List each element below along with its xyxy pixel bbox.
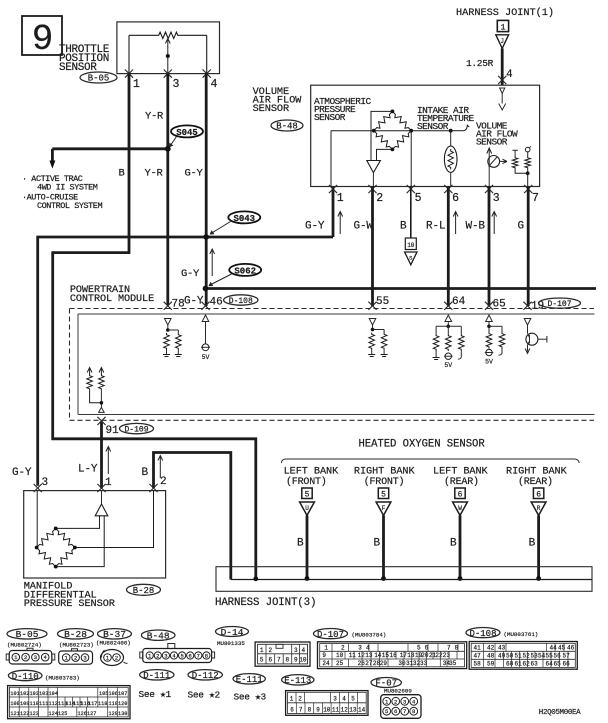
PCM pin64 resistor network with 5V xyxy=(433,322,465,370)
svg-text:2: 2 xyxy=(115,655,118,662)
svg-text:B: B xyxy=(297,538,304,550)
svg-text:B: B xyxy=(142,467,149,479)
svg-text:(FRONT): (FRONT) xyxy=(364,476,405,488)
svg-text:7: 7 xyxy=(532,192,539,205)
svg-text:3: 3 xyxy=(493,192,500,205)
PCM pin 19 xyxy=(523,301,544,313)
svg-text:9: 9 xyxy=(32,19,54,60)
PCM pin91 internal resistors xyxy=(87,368,104,413)
svg-text:1: 1 xyxy=(501,23,506,32)
svg-text:9: 9 xyxy=(316,707,320,714)
VAF pin 5 xyxy=(407,185,422,205)
MDP amplifier triangle xyxy=(95,491,108,516)
svg-text:2: 2 xyxy=(160,476,167,488)
svg-text:118: 118 xyxy=(98,701,107,707)
svg-text:6: 6 xyxy=(189,653,192,660)
TPS pin 4 xyxy=(203,70,218,92)
svg-text:B: B xyxy=(400,221,407,233)
svg-text:See ★1: See ★1 xyxy=(139,689,172,700)
PCM pin55 pull resistors xyxy=(368,325,387,357)
svg-text:G-Y: G-Y xyxy=(185,168,204,180)
svg-text:20: 20 xyxy=(421,652,429,659)
svg-text:43: 43 xyxy=(498,644,506,651)
svg-text:106: 106 xyxy=(109,691,118,697)
heated oxygen sensor LEFT BANK (REAR) xyxy=(433,467,489,581)
node S062 junction xyxy=(203,286,209,292)
svg-text:HARNESS JOINT(1): HARNESS JOINT(1) xyxy=(456,7,554,19)
APS bridge resistor top-right xyxy=(392,111,411,130)
svg-text:B-48: B-48 xyxy=(276,122,298,132)
svg-text:59: 59 xyxy=(487,660,495,667)
svg-text:18: 18 xyxy=(407,652,415,659)
MDP pin 1 xyxy=(97,477,112,492)
PCM pin19 transistor Q xyxy=(525,325,547,353)
svg-text:4: 4 xyxy=(366,644,370,651)
TPS pin 3 xyxy=(164,70,180,92)
svg-text:1: 1 xyxy=(260,647,264,654)
svg-text:5: 5 xyxy=(381,490,386,499)
svg-text:9: 9 xyxy=(294,656,298,663)
svg-text:117: 117 xyxy=(88,701,97,707)
svg-text:14: 14 xyxy=(358,707,366,714)
svg-text:G-Y: G-Y xyxy=(12,467,32,479)
svg-text:D-14: D-14 xyxy=(221,627,244,638)
svg-text:2: 2 xyxy=(268,647,272,654)
HOS brace xyxy=(281,459,579,463)
MDP bridge nodes xyxy=(35,527,77,569)
svg-text:L-Y: L-Y xyxy=(78,464,98,476)
heated oxygen sensor RIGHT BANK (REAR) xyxy=(506,467,568,581)
svg-text:(FRONT): (FRONT) xyxy=(286,476,327,488)
svg-text:3: 3 xyxy=(173,78,180,91)
PCM inner solid box xyxy=(78,314,595,415)
svg-text:6: 6 xyxy=(458,490,463,499)
svg-text:RIGHT BANK: RIGHT BANK xyxy=(354,467,416,478)
svg-text:66: 66 xyxy=(563,660,571,667)
node B wire on bus xyxy=(253,576,258,581)
svg-text:G-W: G-W xyxy=(354,221,374,233)
connector label D-111 xyxy=(139,670,175,700)
svg-text:65: 65 xyxy=(554,660,562,667)
svg-text:102: 102 xyxy=(20,691,29,697)
svg-text:7: 7 xyxy=(197,653,200,660)
label active trac / auto-cruise systems xyxy=(22,174,102,211)
svg-text:62: 62 xyxy=(523,660,531,667)
svg-text:G-Y: G-Y xyxy=(181,268,200,280)
svg-text:35: 35 xyxy=(449,660,457,667)
VAF pin 4 xyxy=(498,69,513,84)
svg-text:112: 112 xyxy=(49,701,58,707)
svg-text:6: 6 xyxy=(268,656,272,663)
MDP bridge resistor top-left xyxy=(37,528,56,547)
arrow up R-L xyxy=(453,212,458,235)
PCM pin 78 xyxy=(164,299,185,311)
svg-text:10: 10 xyxy=(336,652,344,659)
svg-text:3: 3 xyxy=(358,644,362,651)
wire 1.25R from harness joint 1 to VAF pin 4 xyxy=(501,48,504,85)
svg-text:12: 12 xyxy=(358,652,366,659)
svg-text:58: 58 xyxy=(474,660,482,667)
svg-text:5V: 5V xyxy=(444,362,452,369)
connector E-113 pinout table xyxy=(282,675,368,716)
MDP amp to bridge top wiring xyxy=(56,516,104,567)
svg-text:61: 61 xyxy=(515,660,523,667)
svg-text:44: 44 xyxy=(550,644,558,651)
svg-text:105: 105 xyxy=(99,691,108,697)
svg-text:3: 3 xyxy=(294,647,298,654)
svg-text:D-107: D-107 xyxy=(317,630,344,640)
PCM pin46 internal 5V source xyxy=(201,315,210,361)
arrow up G-Y wire xyxy=(210,249,215,276)
splice S062 xyxy=(208,264,261,286)
PCM pin78 internal entry mark xyxy=(165,319,172,326)
svg-text:2: 2 xyxy=(298,696,302,703)
svg-text:4: 4 xyxy=(506,69,513,81)
svg-text:11: 11 xyxy=(349,652,357,659)
connector label D-108 top xyxy=(224,295,258,305)
svg-text:55: 55 xyxy=(546,652,554,659)
IAT junction node xyxy=(449,129,453,133)
svg-text:R-L: R-L xyxy=(426,221,445,233)
svg-text:7: 7 xyxy=(299,707,303,714)
svg-text:Y-R: Y-R xyxy=(145,168,164,180)
PCM pin 55 xyxy=(368,296,389,310)
TPS pin 1 xyxy=(125,70,140,92)
svg-text:10: 10 xyxy=(323,707,331,714)
svg-text:2: 2 xyxy=(394,698,397,705)
APS top node branch to output arrow xyxy=(371,111,392,160)
svg-text:D-108: D-108 xyxy=(229,297,253,306)
APS bridge resistor top-left xyxy=(374,111,393,130)
APS output arrow symbol xyxy=(367,161,381,187)
svg-text:25: 25 xyxy=(336,660,344,667)
svg-text:6: 6 xyxy=(394,708,397,715)
svg-text:126: 126 xyxy=(78,711,87,717)
svg-text:MU801335: MU801335 xyxy=(217,640,245,647)
svg-text:6: 6 xyxy=(290,707,294,714)
svg-text:D-108: D-108 xyxy=(469,629,496,639)
page number box 9 xyxy=(22,16,62,60)
connector label D-107 top xyxy=(539,298,581,308)
svg-text:54: 54 xyxy=(538,652,546,659)
svg-text:14: 14 xyxy=(374,652,382,659)
PCM pin55 internal entry mark xyxy=(369,319,376,326)
svg-text:W-B: W-B xyxy=(466,221,486,233)
APS bridge resistor bottom-right xyxy=(392,131,411,150)
PCM pin19 internal entry mark xyxy=(524,319,531,326)
svg-text:(MU802724): (MU802724) xyxy=(7,642,42,649)
svg-text:121: 121 xyxy=(10,711,19,717)
svg-text:S043: S043 xyxy=(233,214,255,224)
powertrain control module label xyxy=(70,285,154,305)
connector D-108 pinout table xyxy=(466,628,577,670)
svg-text:D-111: D-111 xyxy=(143,671,170,681)
svg-text:5: 5 xyxy=(351,696,355,703)
svg-text:E-113: E-113 xyxy=(284,676,311,686)
svg-text:D-112: D-112 xyxy=(192,671,219,681)
svg-text:Y-R: Y-R xyxy=(145,111,164,123)
splice S045 xyxy=(169,125,203,147)
svg-text:9: 9 xyxy=(322,652,326,659)
connector F-07 pinout xyxy=(371,678,421,719)
svg-text:7: 7 xyxy=(447,644,451,651)
svg-text:55: 55 xyxy=(376,296,389,308)
wire L-Y PCM pin91 to MDP pin1 xyxy=(100,422,103,488)
svg-text:4: 4 xyxy=(342,696,346,703)
svg-text:120: 120 xyxy=(118,701,127,707)
wire B from TPS pin1 staircase to harness joint 3 xyxy=(53,74,256,579)
svg-text:5: 5 xyxy=(180,653,183,660)
svg-text:130: 130 xyxy=(118,711,127,717)
wire B VAF pin5 to ground 10 xyxy=(405,187,417,265)
svg-text:(MU803761): (MU803761) xyxy=(504,631,539,638)
PCM pin64 internal entry mark xyxy=(445,315,452,322)
svg-text:R: R xyxy=(537,505,541,512)
svg-text:B-48: B-48 xyxy=(147,631,170,642)
PCM pin 64 xyxy=(444,296,465,310)
svg-text:LEFT BANK: LEFT BANK xyxy=(284,467,340,478)
svg-text:B-28: B-28 xyxy=(64,629,87,640)
connector label B-28 xyxy=(127,584,161,595)
svg-text:G: G xyxy=(518,221,525,233)
svg-text:1: 1 xyxy=(133,78,140,91)
splice S043 xyxy=(210,211,261,234)
svg-text:1: 1 xyxy=(337,192,344,205)
svg-text:2: 2 xyxy=(376,192,383,205)
svg-text:101: 101 xyxy=(10,691,19,697)
MDP pin3 riser to bridge left xyxy=(36,491,38,548)
svg-text:F: F xyxy=(382,505,386,512)
svg-text:5: 5 xyxy=(305,490,310,499)
svg-text:PRESSURE SENSOR: PRESSURE SENSOR xyxy=(24,598,115,610)
svg-text:3: 3 xyxy=(333,696,337,703)
svg-text:78: 78 xyxy=(172,299,185,311)
svg-text:109: 109 xyxy=(20,701,29,707)
svg-text:64: 64 xyxy=(546,660,554,667)
MDP pin 3 xyxy=(34,477,49,492)
svg-text:SENSOR: SENSOR xyxy=(476,137,508,148)
svg-text:B-05: B-05 xyxy=(16,629,39,640)
svg-text:7: 7 xyxy=(277,656,281,663)
svg-text:129: 129 xyxy=(109,711,118,717)
svg-text:4WD II SYSTEM: 4WD II SYSTEM xyxy=(37,183,98,193)
svg-text:B: B xyxy=(529,538,536,550)
svg-text:119: 119 xyxy=(109,701,118,707)
svg-text:S062: S062 xyxy=(234,266,256,276)
PCM pin 91 xyxy=(97,417,119,437)
svg-text:CONTROL SYSTEM: CONTROL SYSTEM xyxy=(37,201,102,211)
svg-text:15: 15 xyxy=(382,652,390,659)
svg-text:See ★3: See ★3 xyxy=(234,692,267,703)
PCM dashed box xyxy=(70,309,595,421)
svg-text:108: 108 xyxy=(10,701,19,707)
manifold differential pressure sensor label xyxy=(24,581,115,611)
svg-text:8: 8 xyxy=(308,707,312,714)
svg-text:45: 45 xyxy=(558,644,566,651)
svg-text:104: 104 xyxy=(49,691,58,697)
svg-text:17: 17 xyxy=(400,652,408,659)
svg-text:63: 63 xyxy=(531,660,539,667)
wire G-W VAF pin2 to PCM pin 55 xyxy=(371,187,374,307)
svg-text:30: 30 xyxy=(398,660,406,667)
node S045 junction xyxy=(165,146,171,152)
svg-text:D-107: D-107 xyxy=(547,300,571,309)
APS bottom node branch xyxy=(377,149,393,160)
harness joint 3 box xyxy=(216,567,592,592)
wire G VAF pin7 to PCM pin 19 xyxy=(527,187,530,307)
PCM pin65 resistor network with 5V xyxy=(485,322,505,366)
svg-text:1: 1 xyxy=(105,477,112,489)
APS pin1 riser xyxy=(330,131,332,187)
PCM pin 46 xyxy=(201,297,222,310)
svg-text:5: 5 xyxy=(385,708,388,715)
svg-text:8: 8 xyxy=(285,656,289,663)
svg-text:1: 1 xyxy=(324,644,328,651)
MDP pin2 riser to bridge right xyxy=(75,491,154,548)
svg-text:46: 46 xyxy=(567,644,575,651)
heated oxygen sensor RIGHT BANK (FRONT) xyxy=(354,467,416,581)
VAF resistor R1 with antenna top xyxy=(512,150,527,173)
APS bridge resistor bottom-left xyxy=(374,131,393,150)
svg-text:(MU802723): (MU802723) xyxy=(59,642,94,649)
svg-text:46: 46 xyxy=(210,297,223,309)
atmospheric pressure sensor label xyxy=(314,96,372,123)
svg-text:(MU803783): (MU803783) xyxy=(45,675,80,682)
svg-text:10: 10 xyxy=(299,656,307,663)
svg-text:(REAR): (REAR) xyxy=(444,476,479,488)
svg-text:(MU802406): (MU802406) xyxy=(96,640,131,647)
svg-text:53: 53 xyxy=(531,652,539,659)
connector label B-48 xyxy=(271,120,303,131)
node S043 junction xyxy=(203,234,209,240)
svg-text:SENSOR: SENSOR xyxy=(314,112,346,123)
svg-text:MU802609: MU802609 xyxy=(384,688,412,695)
svg-text:10: 10 xyxy=(407,242,415,249)
svg-text:13: 13 xyxy=(349,707,357,714)
manifold differential pressure sensor box B-28 xyxy=(24,491,166,578)
harness joint 3 bus xyxy=(231,579,592,581)
svg-text:2: 2 xyxy=(341,644,345,651)
svg-text:3: 3 xyxy=(164,653,167,660)
svg-text:127: 127 xyxy=(87,711,96,717)
svg-text:U: U xyxy=(305,505,309,512)
PCM pin 65 xyxy=(485,299,506,311)
svg-text:RIGHT BANK: RIGHT BANK xyxy=(506,467,568,478)
svg-text:5: 5 xyxy=(415,192,422,205)
svg-text:48: 48 xyxy=(487,652,495,659)
svg-text:50: 50 xyxy=(506,652,514,659)
wire B MDP pin2 riser xyxy=(154,453,231,580)
heated oxygen sensor LEFT BANK (FRONT) xyxy=(284,467,340,581)
connector B-37 pinout xyxy=(96,629,132,666)
arrow up G-Y xyxy=(338,212,343,235)
MDP bridge resistor bottom-left xyxy=(37,548,56,567)
svg-text:64: 64 xyxy=(452,296,466,308)
svg-text:J: J xyxy=(500,38,504,45)
svg-text:5: 5 xyxy=(260,656,264,663)
node VAF R junction xyxy=(526,171,530,175)
svg-text:107: 107 xyxy=(118,691,127,697)
svg-text:B-05: B-05 xyxy=(88,74,110,84)
PCM pin65 internal entry mark xyxy=(486,315,493,322)
svg-text:W: W xyxy=(458,505,462,512)
wire S045 branch to other systems xyxy=(49,149,167,169)
volume air flow sensor label left xyxy=(253,86,303,115)
MDP bridge resistor bottom-right xyxy=(56,548,75,567)
connector B-05 pinout xyxy=(6,629,55,664)
connector D-14 pinout xyxy=(216,627,311,667)
svg-text:(MU803784): (MU803784) xyxy=(352,632,387,639)
svg-text:8: 8 xyxy=(412,708,415,715)
svg-text:6: 6 xyxy=(452,192,459,205)
svg-text:2: 2 xyxy=(156,653,159,660)
svg-text:S045: S045 xyxy=(176,128,198,138)
MDP pin 2 xyxy=(149,476,166,492)
svg-text:11: 11 xyxy=(332,707,340,714)
arrow up B MDP xyxy=(158,456,163,479)
VAF pin7 riser xyxy=(527,173,529,186)
harness joint 1 numbered box 1 xyxy=(497,20,508,32)
svg-text:3: 3 xyxy=(403,698,406,705)
svg-text:1.25R: 1.25R xyxy=(466,58,494,69)
volume air flow sensor box B-48 xyxy=(311,85,540,186)
VAF pin 2 xyxy=(368,185,383,205)
VAF sensing element xyxy=(487,148,507,187)
svg-text:3: 3 xyxy=(42,477,49,489)
svg-text:LEFT BANK: LEFT BANK xyxy=(433,467,489,478)
svg-text:5: 5 xyxy=(417,644,421,651)
svg-text:2: 2 xyxy=(24,654,27,661)
svg-text:SENSOR: SENSOR xyxy=(253,103,289,115)
svg-text:111: 111 xyxy=(39,701,48,707)
IAT thermistor xyxy=(444,131,457,187)
connector B-28 pinout xyxy=(58,629,94,665)
throttle position sensor label xyxy=(59,44,110,74)
svg-text:29: 29 xyxy=(380,660,388,667)
wire Y-R from TPS pin3 to PCM pin 78 xyxy=(166,74,169,305)
svg-text:65: 65 xyxy=(493,299,506,311)
connector label D-112 xyxy=(188,670,223,701)
svg-text:H2Q05M00EA: H2Q05M00EA xyxy=(539,709,581,717)
svg-text:7: 7 xyxy=(403,708,406,715)
svg-text:2: 2 xyxy=(74,655,77,662)
svg-text:52: 52 xyxy=(523,652,531,659)
volume air flow sensor inner label xyxy=(476,121,518,148)
svg-text:5V: 5V xyxy=(485,359,493,366)
wire S062 branch to right xyxy=(206,287,597,290)
svg-text:(REAR): (REAR) xyxy=(518,476,553,488)
APS right node riser to pin5 xyxy=(410,131,412,187)
wire G-Y horizontal S043 bus to MDP sensor pin3 xyxy=(38,237,333,486)
svg-text:G-Y: G-Y xyxy=(305,221,325,233)
harness joint 1 connector triangle J xyxy=(496,35,509,49)
svg-text:HARNESS JOINT(3): HARNESS JOINT(3) xyxy=(215,597,316,609)
svg-text:6: 6 xyxy=(536,490,541,499)
connector label B-05 xyxy=(80,72,117,84)
wire G-Y from TPS pin4 to PCM pin 46 xyxy=(205,74,208,306)
svg-text:13: 13 xyxy=(365,652,373,659)
potentiometer wiper arrow pin 3 xyxy=(165,39,170,74)
VAF internal ground from pin4 xyxy=(499,88,506,110)
VAF pin 1 xyxy=(329,185,344,205)
APS bridge nodes xyxy=(372,110,413,152)
svg-text:41: 41 xyxy=(474,644,482,651)
svg-text:E-111: E-111 xyxy=(236,675,263,685)
svg-text:47: 47 xyxy=(474,652,482,659)
svg-text:G-Y: G-Y xyxy=(184,296,204,308)
throttle position sensor box TPS xyxy=(117,22,220,74)
wire VAF pin1 riser to S043 bus xyxy=(332,187,335,238)
